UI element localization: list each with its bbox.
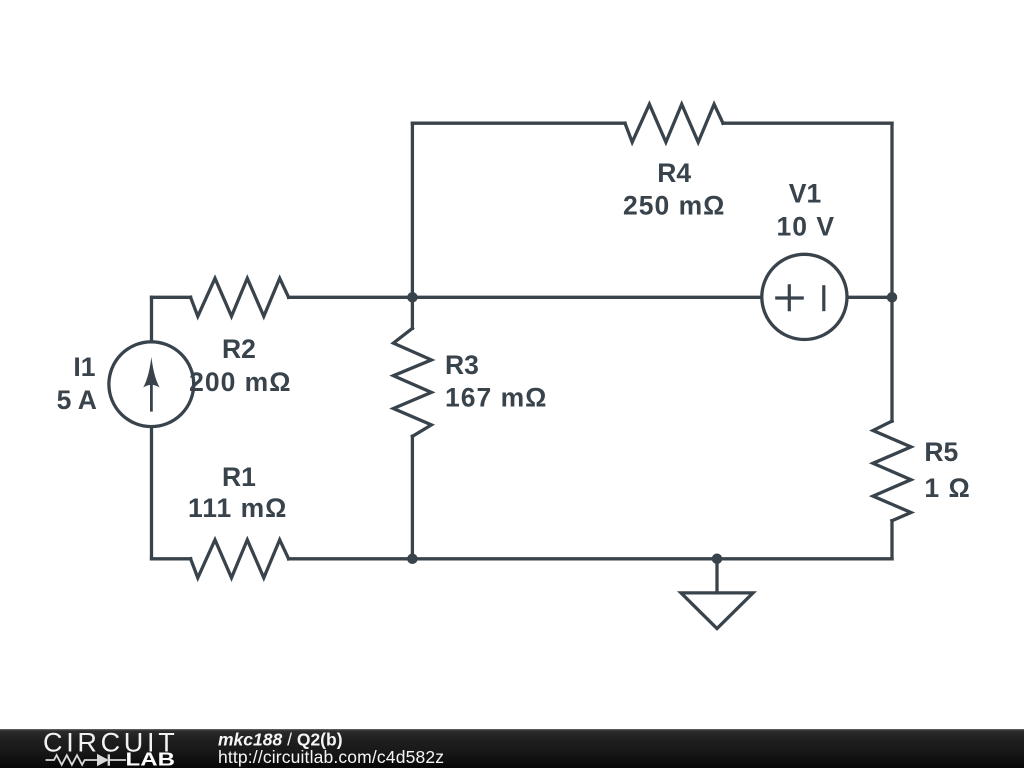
svg-text:V1: V1	[789, 179, 821, 209]
resistor R5	[873, 421, 911, 521]
wire right vertical bottom	[890, 521, 893, 559]
I1 arrow	[143, 357, 159, 412]
wire top-left vertical	[411, 123, 414, 297]
resistor R3	[393, 328, 431, 436]
ground	[681, 593, 753, 629]
svg-text:250 mΩ: 250 mΩ	[623, 191, 725, 221]
wire left vertical	[150, 297, 153, 559]
wire top rail left segment	[412, 122, 625, 125]
wire mid rail right segment	[847, 296, 892, 299]
svg-text:1 Ω: 1 Ω	[924, 473, 970, 503]
wire bottom rail left segment	[152, 557, 191, 560]
svg-text:R2: R2	[222, 334, 256, 364]
svg-text:R1: R1	[222, 462, 256, 492]
ground stem	[715, 559, 718, 593]
wire R3 bottom lead	[411, 436, 414, 559]
svg-text:I1: I1	[73, 352, 95, 382]
resistor R2	[191, 278, 289, 316]
resistor R1	[191, 540, 289, 578]
V1 plus sign	[775, 284, 804, 311]
svg-text:5 A: 5 A	[57, 385, 97, 415]
svg-text:200 mΩ: 200 mΩ	[189, 367, 291, 397]
svg-text:R4: R4	[657, 158, 691, 188]
wire mid rail center segment	[289, 296, 762, 299]
wire right vertical top	[890, 123, 893, 421]
node junction dot ground (717,559)	[712, 554, 723, 565]
node junction dot bottom-mid (412,559)	[407, 554, 418, 565]
node junction dot right (892,297)	[887, 292, 898, 303]
wire R3 top lead	[411, 297, 414, 328]
node junction dot top-mid (412,297)	[407, 292, 418, 303]
svg-text:167 mΩ: 167 mΩ	[445, 383, 547, 413]
resistor R4	[625, 104, 723, 142]
svg-text:R5: R5	[924, 437, 958, 467]
svg-text:111 mΩ: 111 mΩ	[188, 493, 287, 523]
current source I1	[109, 342, 194, 427]
wire bottom rail right segment	[289, 557, 892, 560]
CircuitLab logo resistor-diode glyph	[46, 754, 127, 765]
svg-text:LAB: LAB	[126, 749, 176, 768]
wire mid rail left segment	[152, 296, 191, 299]
V1 minus bar	[822, 285, 825, 311]
svg-text:10 V: 10 V	[777, 212, 836, 242]
svg-text:R3: R3	[445, 350, 479, 380]
svg-text:http://circuitlab.com/c4d582z: http://circuitlab.com/c4d582z	[218, 747, 444, 767]
voltage source V1	[762, 254, 847, 339]
wire top rail right segment	[723, 122, 892, 125]
